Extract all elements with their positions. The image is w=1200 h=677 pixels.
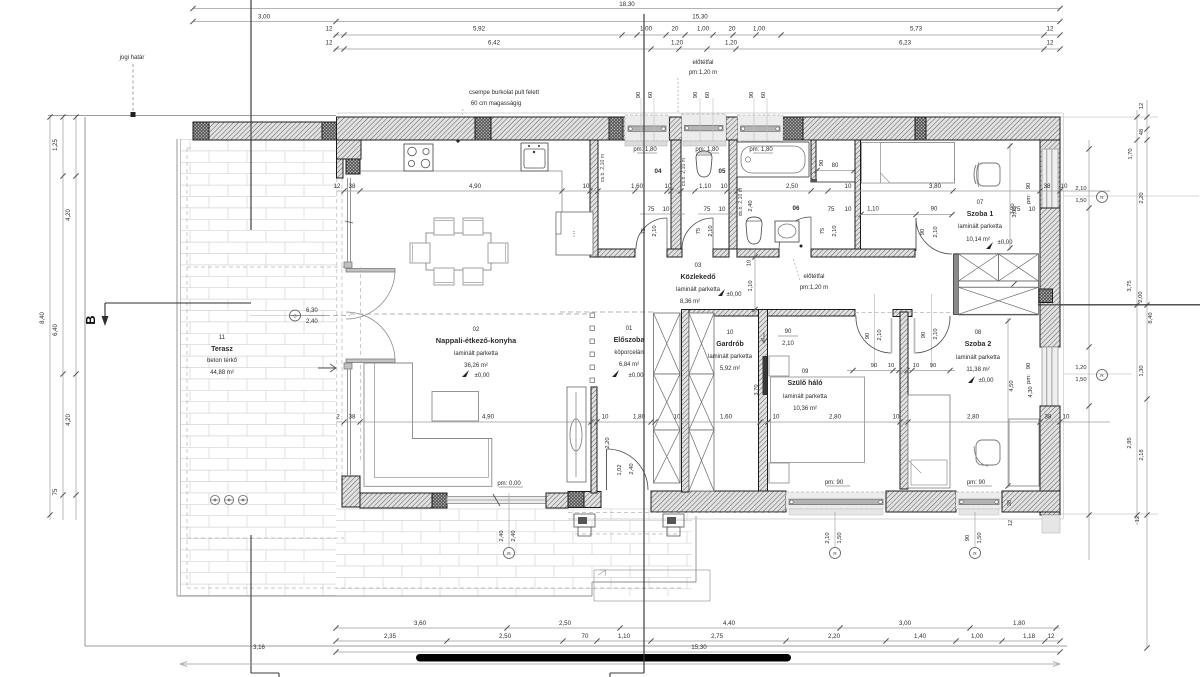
szoba1 closet (X cells)	[959, 254, 999, 281]
svg-text:75: 75	[828, 206, 835, 213]
svg-text:1,30: 1,30	[1139, 365, 1145, 376]
svg-text:jogi határ: jogi határ	[119, 55, 145, 61]
svg-text:Szoba 1: Szoba 1	[967, 211, 994, 218]
svg-text:1,20: 1,20	[725, 40, 738, 47]
svg-text:4,90: 4,90	[482, 414, 495, 421]
svg-text:3,00: 3,00	[899, 620, 912, 627]
eloszoba radiator	[567, 387, 586, 482]
svg-text:R: R	[507, 551, 511, 557]
svg-text:18,30: 18,30	[619, 1, 635, 8]
bottom wall left corner pillar	[342, 476, 360, 507]
szoba2 chair	[976, 440, 1000, 465]
svg-text:beton térkő: beton térkő	[207, 358, 238, 364]
svg-text:2,20: 2,20	[1139, 192, 1145, 203]
top wall pier 4	[726, 117, 738, 140]
svg-text:90: 90	[921, 332, 927, 338]
left dim lines	[49, 115, 51, 520]
svg-text:80: 80	[832, 163, 839, 169]
svg-text:2,40: 2,40	[511, 530, 517, 541]
svg-text:2,50: 2,50	[499, 633, 512, 640]
svg-text:38: 38	[349, 183, 356, 190]
toilet 05	[696, 151, 712, 177]
corridor bottom wall	[682, 310, 856, 317]
terrace door arc upper	[346, 272, 395, 319]
svg-text:1,02: 1,02	[617, 464, 623, 475]
svg-text:1,10: 1,10	[699, 183, 712, 190]
toilet 06	[746, 217, 762, 244]
svg-text:75: 75	[696, 228, 702, 234]
right wall lower sill	[1042, 515, 1060, 533]
svg-text:1,50: 1,50	[837, 532, 843, 543]
top wall pillar 5	[783, 117, 803, 140]
terrace outline	[176, 139, 178, 596]
svg-text:38: 38	[1044, 183, 1051, 190]
door arc szulo halo	[856, 316, 892, 353]
svg-text:12: 12	[1008, 520, 1014, 526]
living corner pillar	[346, 159, 360, 174]
svg-text:48: 48	[1139, 129, 1145, 135]
szoba1 closet rail	[959, 281, 1039, 287]
dotted square boundary living/eloszoba	[590, 313, 595, 318]
svg-text:6,42: 6,42	[488, 40, 501, 47]
terrace lamps	[210, 495, 219, 504]
svg-text:laminált parketta: laminált parketta	[454, 351, 499, 357]
top dim row 2 (3,00 / 15,30)	[193, 21, 1060, 23]
svg-text:10: 10	[719, 206, 726, 213]
svg-text:1,00: 1,00	[753, 26, 766, 33]
kitchen counter edge	[361, 171, 562, 212]
svg-text:Terasz: Terasz	[211, 346, 233, 353]
svg-text:12: 12	[1047, 40, 1054, 47]
terrace top wall pillar right	[322, 122, 337, 140]
right exterior wall middle	[1040, 208, 1060, 347]
svg-text:01: 01	[626, 326, 633, 332]
section line B vertical x=644	[643, 14, 645, 673]
svg-text:90: 90	[693, 92, 699, 98]
svg-text:90: 90	[865, 333, 871, 339]
terrace top wall pillar left	[193, 122, 209, 140]
svg-text:laminált parketta: laminált parketta	[956, 355, 1001, 361]
wall T between south doors	[893, 310, 912, 317]
svg-text:1,80: 1,80	[1013, 620, 1026, 627]
dashed dim line through living	[301, 315, 350, 317]
svg-text:3,60: 3,60	[414, 620, 427, 627]
door jamb lower	[344, 363, 352, 369]
sofa L-shaped	[364, 363, 492, 486]
living corner wall piece	[337, 140, 362, 159]
svg-text:10: 10	[893, 414, 900, 421]
bottom wall living segment	[360, 493, 432, 508]
leader dot counter note	[456, 139, 459, 142]
bathtub 06	[737, 142, 809, 177]
section line A bottom box	[251, 672, 279, 674]
section line B overlay	[643, 14, 645, 673]
niche dim line	[816, 170, 855, 172]
svg-text:±0,00: ±0,00	[727, 292, 743, 298]
svg-text:60: 60	[705, 92, 711, 98]
svg-text:70: 70	[582, 633, 589, 640]
terrace level marker	[290, 310, 301, 321]
svg-text:2,80: 2,80	[829, 414, 842, 421]
corridor width dim	[754, 250, 756, 316]
living west glass door	[347, 178, 349, 262]
svg-text:10: 10	[747, 260, 753, 266]
svg-text:12: 12	[1048, 633, 1055, 640]
svg-text:pm: 90: pm: 90	[967, 480, 986, 486]
bottom wall window (szulo halo)	[786, 492, 886, 509]
dashed projection x360	[360, 267, 362, 462]
svg-text:38: 38	[349, 414, 356, 421]
top wall window 05	[682, 114, 727, 141]
svg-text:pm: 1,80: pm: 1,80	[749, 147, 773, 153]
eloszoba west wall	[591, 387, 597, 493]
svg-text:2,95: 2,95	[1127, 437, 1133, 448]
bottom arrow line	[180, 663, 1060, 665]
wall 05/06	[729, 140, 737, 249]
right wall window 2	[1042, 347, 1058, 406]
svg-text:8,36 m²: 8,36 m²	[680, 299, 700, 305]
svg-text:1,18: 1,18	[1023, 633, 1036, 640]
szoba1 closet corner pillar	[1039, 289, 1053, 303]
section marker B	[105, 302, 251, 304]
door arc 06	[779, 217, 811, 249]
svg-text:10: 10	[845, 183, 852, 190]
svg-text:60: 60	[648, 92, 654, 98]
svg-text:2,20: 2,20	[605, 437, 611, 448]
svg-text:10,14 m²: 10,14 m²	[966, 237, 990, 243]
svg-text:pm: 0,00: pm: 0,00	[497, 481, 521, 487]
svg-text:laminált parketta: laminált parketta	[708, 354, 753, 360]
eloszoba wardrobe (X cells)	[654, 313, 681, 374]
svg-text:11,38 m²: 11,38 m²	[966, 367, 989, 373]
svg-text:1,25: 1,25	[53, 139, 59, 151]
svg-text:1,10: 1,10	[748, 280, 754, 291]
svg-text:Közlekedő: Közlekedő	[680, 274, 715, 281]
svg-text:2,35: 2,35	[384, 633, 397, 640]
svg-text:12: 12	[1047, 26, 1054, 33]
svg-text:pm:: pm:	[1026, 374, 1032, 384]
svg-text:12: 12	[1139, 103, 1145, 109]
svg-text:R: R	[833, 551, 837, 557]
svg-text:1,60: 1,60	[631, 183, 644, 190]
svg-text:75: 75	[704, 206, 711, 213]
svg-text:60 cm magasságig: 60 cm magasságig	[471, 101, 521, 107]
svg-text:3,00: 3,00	[258, 14, 271, 21]
bottom wall entrance segment	[651, 491, 786, 512]
szoba1 west wall	[855, 140, 861, 249]
svg-text:1,70: 1,70	[1128, 148, 1134, 159]
svg-text:Nappali-étkező-konyha: Nappali-étkező-konyha	[436, 336, 517, 345]
gardrob west wall	[682, 310, 690, 493]
kitchen stove	[404, 144, 433, 171]
leader lines for R markers	[508, 493, 510, 547]
svg-text:2,50: 2,50	[786, 183, 799, 190]
dashed lines below bottom wall	[568, 512, 786, 514]
svg-text:5,92 m²: 5,92 m²	[720, 366, 740, 372]
right wall window 1	[1042, 149, 1058, 208]
right dim lines	[1088, 140, 1090, 560]
wall living/04	[590, 140, 598, 257]
door arc 05	[682, 218, 713, 249]
svg-text:pm:1,20 m: pm:1,20 m	[689, 70, 717, 76]
section line A vertical x=251	[250, 0, 252, 230]
terrace paving vertical joints	[190, 140, 687, 597]
svg-text:10: 10	[602, 414, 609, 421]
helper line right of wall bottom	[1060, 513, 1158, 515]
svg-text:5,92: 5,92	[473, 26, 486, 33]
svg-text:4,20: 4,20	[66, 209, 72, 221]
szulo halo nightstand top	[769, 356, 789, 376]
dining chairs	[434, 218, 454, 235]
svg-text:1,10: 1,10	[618, 633, 631, 640]
svg-text:6,23: 6,23	[899, 40, 912, 47]
svg-text:08: 08	[975, 330, 982, 336]
svg-text:R: R	[1100, 195, 1104, 201]
jogi hatar leader dashed	[132, 64, 134, 113]
bottom wall segment 3	[886, 491, 956, 512]
svg-text:04: 04	[655, 168, 662, 175]
svg-text:12: 12	[334, 183, 341, 190]
svg-text:2,10: 2,10	[825, 532, 831, 543]
door arc 04	[636, 218, 667, 249]
svg-text:10: 10	[727, 330, 734, 336]
szoba1 closet lower X	[959, 287, 1039, 314]
svg-text:±0,00: ±0,00	[979, 378, 995, 384]
terrace dashed horizontal lower	[187, 537, 344, 539]
terrace top wall	[193, 122, 337, 140]
terrace paving pattern (bottom strip)	[336, 509, 692, 589]
dim chain y422	[336, 421, 1110, 423]
svg-text:2: 2	[336, 414, 340, 421]
door hinge dot 06	[800, 245, 803, 248]
svg-text:90: 90	[636, 92, 642, 98]
svg-text:1,00: 1,00	[640, 26, 653, 33]
svg-text:B: B	[83, 315, 98, 324]
svg-text:2,40: 2,40	[499, 530, 505, 541]
svg-text:90: 90	[965, 535, 971, 541]
svg-text:10: 10	[583, 183, 590, 190]
svg-text:3,00: 3,00	[1010, 203, 1016, 214]
svg-text:4,20: 4,20	[66, 414, 72, 426]
wall szulo halo/szoba2	[900, 312, 908, 489]
svg-text:1,00: 1,00	[971, 633, 984, 640]
svg-text:4,90: 4,90	[469, 183, 482, 190]
door jamb upper	[344, 262, 352, 268]
svg-text:Szülő háló: Szülő háló	[788, 380, 823, 387]
svg-text:75: 75	[820, 228, 826, 234]
svg-text:10: 10	[888, 363, 894, 369]
svg-text:2,10: 2,10	[652, 225, 658, 236]
svg-text:38: 38	[1007, 500, 1013, 506]
svg-text:2,18: 2,18	[1139, 449, 1145, 460]
svg-text:12: 12	[1135, 516, 1141, 522]
svg-text:38: 38	[1045, 414, 1052, 421]
svg-text:⋮: ⋮	[571, 231, 578, 238]
property boundary bottom line	[85, 645, 1067, 647]
top wall pillar 2	[609, 117, 623, 140]
terrace dashed inset border	[186, 148, 188, 588]
szulo halo bed	[771, 377, 865, 463]
niche end cap	[811, 179, 817, 183]
exterior plaster line right	[1063, 113, 1065, 519]
svg-text:pm: 1,80: pm: 1,80	[695, 147, 719, 153]
bottom wall pillar (living)	[432, 493, 447, 508]
top dim row 4	[334, 48, 1060, 50]
svg-text:±0,00: ±0,00	[998, 240, 1014, 246]
svg-text:10: 10	[1061, 183, 1068, 190]
svg-text:20: 20	[729, 26, 736, 33]
section right arm overlay	[1038, 304, 1200, 306]
svg-text:90: 90	[930, 363, 936, 369]
svg-text:90: 90	[1026, 183, 1032, 189]
szoba1 chair	[978, 163, 1000, 186]
svg-text:2,10: 2,10	[933, 226, 939, 237]
svg-text:cs.b. 2,10 m: cs.b. 2,10 m	[681, 158, 687, 186]
szoba2 desk	[1009, 419, 1039, 486]
svg-text:03: 03	[695, 263, 702, 269]
svg-text:6,30: 6,30	[306, 308, 318, 314]
svg-text:3,70: 3,70	[754, 384, 760, 395]
svg-text:10: 10	[663, 206, 670, 213]
wall gardrob/szulo halo	[759, 310, 768, 492]
svg-text:3,80: 3,80	[929, 183, 942, 190]
svg-text:±0,00: ±0,00	[629, 373, 645, 379]
svg-text:1,20: 1,20	[671, 40, 684, 47]
svg-text:2,40: 2,40	[306, 319, 318, 325]
dashed open boundary eloszoba/corridor	[560, 311, 653, 313]
svg-text:csempe burkolat pult felett: csempe burkolat pult felett	[469, 90, 539, 96]
svg-text:3,16: 3,16	[253, 645, 265, 651]
bottom wall piece right of pillar	[584, 492, 601, 508]
svg-text:2,00: 2,00	[1138, 291, 1144, 302]
svg-text:4,30: 4,30	[1028, 386, 1034, 397]
szoba2 bed	[908, 395, 950, 488]
svg-text:10: 10	[1063, 414, 1070, 421]
svg-text:1,20: 1,20	[1075, 365, 1086, 371]
svg-text:pm: 1,80: pm: 1,80	[633, 147, 657, 153]
washbasin 06	[775, 221, 799, 242]
svg-text:06: 06	[793, 205, 800, 212]
terrace entry arrow	[318, 364, 336, 372]
terrace dashed horizontal upper	[187, 266, 344, 268]
bottom dim row C 15,30	[336, 651, 1060, 653]
szoba1 bed	[862, 143, 955, 184]
window sill 04	[625, 141, 667, 146]
svg-text:2,80: 2,80	[967, 414, 980, 421]
top dim row 3	[334, 34, 1060, 36]
svg-text:2,75: 2,75	[711, 633, 724, 640]
svg-text:R: R	[1100, 373, 1104, 379]
svg-text:10: 10	[721, 183, 728, 190]
main top wall	[337, 117, 1061, 140]
svg-text:Gardrób: Gardrób	[716, 341, 744, 348]
niche bottom line	[816, 181, 855, 183]
south door width dims	[847, 370, 955, 372]
top wall pier 3	[670, 117, 682, 140]
svg-text:1,50: 1,50	[1075, 377, 1086, 383]
terrace sliding door	[447, 497, 546, 504]
window sill 06	[741, 141, 781, 146]
top wall window 04	[625, 115, 669, 141]
top wall window 06	[738, 115, 784, 141]
svg-text:2,50: 2,50	[559, 620, 572, 627]
svg-text:cs.b. 2,10 m: cs.b. 2,10 m	[600, 154, 606, 182]
corridor top wall segments	[598, 249, 635, 257]
svg-text:90: 90	[785, 329, 792, 335]
terrace door leaf lower	[346, 359, 395, 363]
svg-text:12: 12	[326, 40, 333, 47]
svg-text:2,10: 2,10	[877, 329, 883, 340]
svg-text:pm:: pm:	[1026, 194, 1032, 204]
svg-text:laminált parketta: laminált parketta	[783, 394, 828, 400]
svg-text:8,40: 8,40	[1148, 312, 1154, 323]
svg-text:1,10: 1,10	[867, 207, 879, 213]
entrance walkway outline	[594, 570, 710, 601]
svg-text:1,50: 1,50	[977, 532, 983, 543]
svg-text:15,30: 15,30	[692, 14, 708, 21]
svg-text:2,10: 2,10	[708, 225, 714, 236]
svg-text:±0,00: ±0,00	[475, 373, 491, 379]
svg-text:10: 10	[913, 363, 919, 369]
entrance step blocks left	[574, 514, 595, 527]
bottom wall segment 2	[546, 493, 568, 508]
svg-text:6,84 m²: 6,84 m²	[619, 362, 639, 368]
svg-text:pm: 90: pm: 90	[825, 480, 844, 486]
svg-text:4,40: 4,40	[723, 620, 736, 627]
helper line right of wall top	[1060, 116, 1158, 118]
right exterior wall upper	[1040, 140, 1060, 209]
right exterior wall lower	[1040, 406, 1060, 515]
svg-text:07: 07	[977, 200, 984, 206]
svg-text:90: 90	[819, 160, 825, 166]
svg-text:2,10: 2,10	[933, 328, 939, 339]
svg-text:10: 10	[773, 414, 780, 421]
svg-text:előtétfal: előtétfal	[692, 60, 713, 66]
kitchen sink	[521, 143, 548, 171]
svg-text:10,36 m²: 10,36 m²	[793, 406, 817, 412]
svg-text:1,40: 1,40	[914, 633, 927, 640]
property boundary left vertical	[84, 117, 86, 646]
top wall pillar 6	[915, 117, 926, 140]
svg-text:cs.b. 2,10 m: cs.b. 2,10 m	[738, 188, 744, 216]
svg-text:4,50: 4,50	[1009, 380, 1015, 391]
door arc szoba1	[916, 218, 952, 254]
door axis lines south	[874, 294, 876, 368]
svg-text:laminált parketta: laminált parketta	[958, 224, 1003, 230]
section line right arm	[1038, 304, 1200, 306]
window axis lines	[640, 98, 642, 141]
svg-text:10: 10	[1029, 206, 1036, 213]
svg-text:2,10: 2,10	[832, 225, 838, 236]
svg-text:pm:1,20 m: pm:1,20 m	[800, 285, 828, 291]
svg-text:1,00: 1,00	[697, 26, 710, 33]
door arc szoba2	[915, 316, 951, 353]
svg-text:1,60: 1,60	[720, 414, 733, 421]
window sill 05	[683, 141, 726, 146]
coffee table	[432, 392, 479, 422]
top dim row 1 (18,30)	[193, 8, 1060, 10]
wall 04/05	[671, 140, 681, 249]
svg-text:6,40: 6,40	[53, 324, 59, 336]
szulo halo nightstand bottom	[769, 463, 789, 483]
exterior plaster line top	[337, 112, 1064, 114]
bottom wall entrance pillar	[568, 492, 584, 508]
svg-text:90: 90	[931, 207, 938, 213]
svg-text:2,40: 2,40	[748, 200, 754, 211]
svg-text:előtétfal: előtétfal	[803, 274, 824, 280]
svg-text:5,73: 5,73	[910, 26, 923, 33]
bottom wall window (szoba2)	[956, 492, 1002, 509]
